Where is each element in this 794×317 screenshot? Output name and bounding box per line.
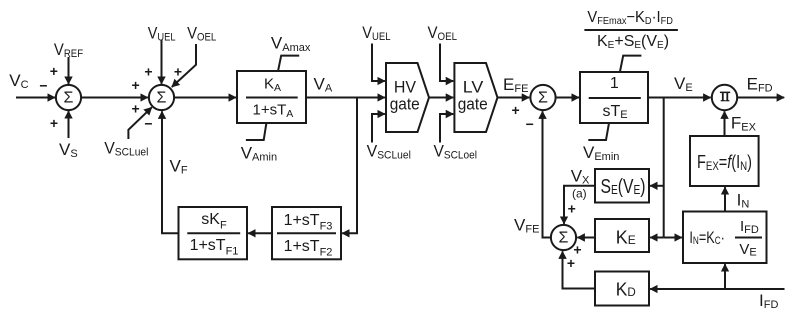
limit upper VFEmax fraction — [620, 56, 642, 72]
svg-text:IFD: IFD — [740, 218, 759, 236]
block KE — [595, 219, 649, 252]
node VC — [9, 71, 28, 91]
node VUEL (S2) — [148, 24, 176, 44]
svg-text:+: + — [50, 63, 58, 79]
node VOEL (LV) — [428, 23, 458, 43]
svg-text:1+sTF2: 1+sTF2 — [284, 238, 333, 258]
svg-text:+: + — [512, 102, 520, 118]
svg-text:+: + — [50, 115, 58, 131]
svg-text:IN=KC·: IN=KC· — [689, 228, 725, 247]
svg-text:VAmin: VAmin — [241, 144, 277, 164]
wire VSCLoel into LV — [440, 114, 453, 143]
svg-text:sTE: sTE — [603, 103, 628, 121]
svg-text:+: + — [174, 63, 182, 79]
svg-text:1+sTF1: 1+sTF1 — [190, 237, 239, 258]
multiplier PI — [712, 85, 737, 110]
node VREF — [54, 40, 83, 60]
svg-text:KE: KE — [616, 228, 636, 248]
svg-text:IFD: IFD — [759, 291, 778, 311]
wire HV to LV — [429, 97, 453, 99]
wire S1 to S2 — [81, 97, 148, 99]
svg-text:HV: HV — [394, 77, 417, 96]
svg-text:KD: KD — [616, 280, 636, 300]
svg-text:1: 1 — [610, 75, 619, 92]
svg-text:VX: VX — [571, 167, 590, 187]
svg-text:SE(VE): SE(VE) — [601, 176, 646, 198]
block TF3/TF2 — [272, 207, 341, 259]
node VUEL (HV) — [362, 23, 390, 43]
svg-text:Σ: Σ — [64, 90, 74, 107]
svg-text:+: + — [144, 63, 152, 79]
node EFE — [503, 75, 528, 95]
svg-text:VE: VE — [739, 241, 756, 259]
LV gate — [454, 63, 497, 132]
svg-text:KA: KA — [264, 76, 281, 94]
node VOEL (S2) — [187, 24, 216, 44]
limit VAmax — [278, 56, 299, 72]
node VSCLuel (HV) — [367, 141, 411, 161]
wire VE into KE — [650, 237, 664, 239]
wire S4 to S3 (VFE) — [543, 111, 551, 237]
wire IN to FEX — [724, 187, 726, 211]
wire VE into IN block — [664, 237, 682, 239]
summing junction S3 — [530, 85, 555, 110]
svg-text:VSCLuel: VSCLuel — [367, 141, 411, 161]
block IN = KC IFD/VE — [683, 212, 767, 264]
svg-text:FEX: FEX — [731, 114, 757, 134]
wire IFD into IN block — [724, 264, 726, 289]
wire KD to S4 — [563, 251, 596, 288]
svg-text:Σ: Σ — [559, 230, 569, 247]
svg-text:+: + — [568, 201, 576, 217]
wire FEX to PI — [724, 111, 726, 136]
wire VSCLuel into HV — [372, 114, 385, 143]
svg-text:VE: VE — [674, 74, 693, 94]
wire VREF into S1 — [68, 57, 70, 84]
wire SE to S4 (VX) — [564, 186, 595, 224]
node VS — [59, 140, 78, 160]
svg-text:+: + — [567, 255, 575, 271]
svg-text:VFEmax−KD·IFD: VFEmax−KD·IFD — [587, 9, 673, 27]
svg-text:EFE: EFE — [503, 75, 528, 95]
block KA — [237, 71, 306, 123]
svg-text:gate: gate — [390, 95, 420, 114]
svg-text:VOEL: VOEL — [428, 23, 458, 43]
wire VE into SE — [650, 185, 664, 187]
block SE(VE) — [595, 169, 649, 203]
wire VOEL into LV — [440, 44, 453, 82]
wire S3 to integrator — [556, 97, 579, 99]
limit VEmin — [588, 123, 609, 140]
node VF — [170, 157, 188, 177]
wire VS into S1 — [68, 111, 70, 138]
wire EFD out — [737, 97, 784, 99]
wire sKF to S2 (VF) — [162, 111, 179, 233]
wire S2 to KA — [174, 97, 236, 99]
node VSCLuel (S2) — [104, 138, 148, 158]
node EFD — [747, 75, 773, 95]
node VSCLoel (LV) — [434, 141, 478, 161]
block FEX=f(IN) — [690, 136, 759, 186]
svg-text:VAmax: VAmax — [271, 34, 311, 54]
summing junction S1 — [56, 85, 81, 110]
svg-text:VEmin: VEmin — [583, 143, 619, 163]
summing junction S2 — [149, 85, 174, 110]
svg-text:VS: VS — [59, 140, 78, 160]
wire TF3 to sKF — [248, 232, 272, 234]
svg-text:gate: gate — [458, 95, 488, 114]
wire VC into S1 — [16, 97, 55, 99]
svg-text:VSCLuel: VSCLuel — [104, 138, 148, 158]
wire LV to S3 — [498, 97, 530, 99]
wire KE to S4 — [577, 237, 595, 239]
node VA — [314, 75, 333, 95]
svg-text:VF: VF — [170, 157, 188, 177]
svg-text:1+sTF3: 1+sTF3 — [284, 212, 333, 233]
block integrator 1/sTE — [580, 72, 648, 123]
block KD — [595, 272, 649, 306]
wire IFD input — [650, 288, 784, 290]
svg-text:VSCLoel: VSCLoel — [434, 141, 478, 161]
node IFD — [759, 291, 778, 311]
wire VSCLuel into S2 — [128, 107, 151, 139]
HV gate — [386, 63, 429, 132]
svg-text:EFD: EFD — [747, 75, 773, 95]
svg-text:1+sTA: 1+sTA — [253, 102, 294, 120]
svg-text:+: + — [132, 101, 140, 117]
block sKF/(1+sTF1) — [179, 207, 248, 259]
svg-text:(a): (a) — [572, 186, 587, 200]
svg-text:−: − — [144, 116, 152, 132]
limit VAmin — [246, 123, 267, 140]
wire VUEL into S2 — [161, 40, 163, 84]
wire VE tap down — [663, 98, 665, 238]
svg-text:VFE: VFE — [514, 215, 539, 235]
svg-text:VA: VA — [314, 75, 333, 95]
wire VOEL into S2 — [172, 44, 196, 87]
svg-text:−: − — [39, 77, 47, 93]
wire integrator to PI — [648, 97, 711, 99]
node VE — [674, 74, 693, 94]
svg-text:KE+SE(VE): KE+SE(VE) — [597, 33, 669, 51]
svg-text:Σ: Σ — [157, 90, 167, 107]
svg-text:LV: LV — [463, 77, 484, 96]
summing junction S4 — [551, 225, 576, 250]
svg-text:−: − — [526, 116, 534, 132]
wire feedback tap from VA line — [342, 98, 357, 234]
svg-text:FEX=f(IN): FEX=f(IN) — [697, 152, 752, 173]
wire VUEL into HV — [372, 44, 385, 82]
svg-text:IN: IN — [737, 190, 750, 210]
svg-text:VC: VC — [9, 71, 28, 91]
svg-text:sKF: sKF — [201, 211, 227, 232]
wire KA to HV gate — [306, 97, 385, 99]
svg-text:+: + — [132, 77, 140, 93]
svg-text:VUEL: VUEL — [362, 23, 390, 43]
svg-text:Σ: Σ — [538, 90, 548, 107]
svg-text:VOEL: VOEL — [187, 24, 216, 44]
